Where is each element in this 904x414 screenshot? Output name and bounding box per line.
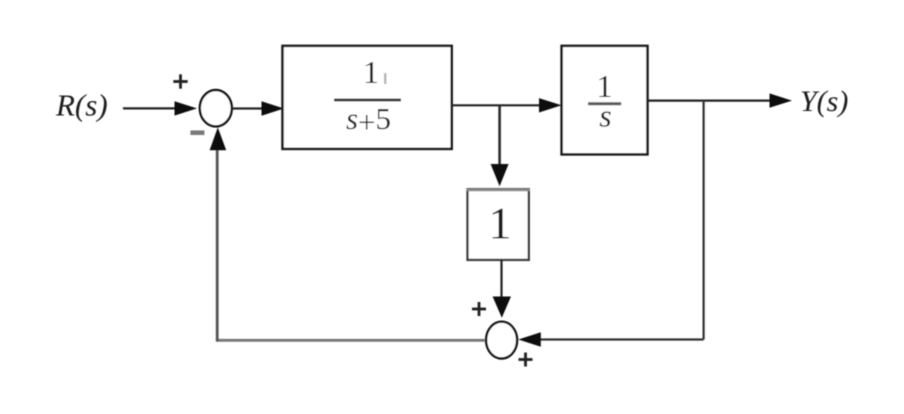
svg-text:R(s): R(s) bbox=[55, 88, 108, 123]
svg-text:s: s bbox=[599, 98, 611, 134]
svg-text:s+5: s+5 bbox=[346, 101, 391, 140]
svg-text:1: 1 bbox=[363, 54, 379, 90]
svg-text:Y(s): Y(s) bbox=[800, 85, 848, 118]
svg-text:1: 1 bbox=[489, 198, 512, 249]
